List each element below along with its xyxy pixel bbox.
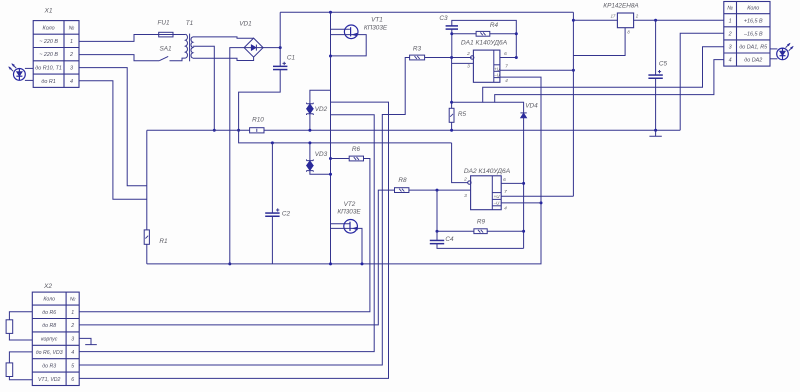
wire X1 pin 1 to FU1: [79, 35, 159, 42]
svg-text:VT1, VD2: VT1, VD2: [38, 377, 61, 383]
svg-text:2: 2: [466, 51, 470, 57]
wire mid line down to DA2 pin 2: [452, 143, 468, 183]
svg-text:№: №: [70, 297, 76, 303]
resistor R6: [349, 156, 363, 161]
svg-text:C3: C3: [439, 15, 448, 22]
wire VT1 gate: [331, 28, 350, 30]
wire SA1 to T1 primary bottom: [170, 58, 186, 61]
wire C1 bottom to minus line: [239, 70, 281, 131]
connector X2 table: [32, 292, 79, 385]
capacitor C5: [648, 74, 662, 76]
junction: [654, 19, 657, 22]
svg-text:+16,5 В: +16,5 В: [744, 18, 763, 24]
wire HL2 to connector pin 4: [770, 58, 777, 60]
wire VD4 to DA2 output: [523, 118, 525, 249]
junction: [329, 262, 332, 265]
wire R4 left lead: [452, 33, 476, 35]
wire branch to VD2: [310, 90, 331, 104]
wire FU1 to T1 primary top: [173, 34, 185, 36]
svg-text:КП303Е: КП303Е: [337, 209, 361, 216]
voltage regulator body: [617, 13, 633, 28]
wire +V top rail: [280, 11, 573, 13]
svg-text:7: 7: [505, 64, 508, 70]
svg-text:R3: R3: [413, 46, 422, 53]
junction: [271, 141, 274, 144]
svg-text:~ 220 В: ~ 220 В: [39, 39, 58, 45]
svg-text:4: 4: [70, 79, 73, 85]
junction: [436, 189, 439, 192]
wire VT2 gate: [331, 223, 350, 225]
svg-text:X1: X1: [43, 8, 52, 15]
svg-text:5: 5: [71, 363, 74, 369]
op-amp DA1 body: [473, 50, 500, 82]
junction: [522, 230, 525, 233]
fuse FU1: [159, 32, 173, 37]
svg-text:C2: C2: [282, 211, 291, 218]
connector table (right): [724, 2, 770, 67]
LED HL2 indicator (right): [777, 48, 789, 60]
wire R6 right lead down to X2 pin 1: [79, 159, 370, 312]
wire top rail down VT1 column: [330, 12, 332, 56]
wire DA2 output pin 6: [501, 182, 523, 184]
svg-text:VD1: VD1: [239, 21, 252, 28]
wire rail corner down to R1: [146, 130, 148, 230]
svg-text:Коло: Коло: [43, 25, 55, 31]
svg-text:Т1: Т1: [186, 20, 194, 27]
zener VD2: [307, 103, 314, 104]
wire T1 secondary mid tap down: [193, 46, 214, 130]
wire C1 minus down to mid line: [239, 130, 452, 143]
junction: [228, 262, 231, 265]
svg-text:2: 2: [463, 177, 467, 183]
wire X1 pin 4 down to R1 node: [79, 81, 147, 200]
wire branch VT1,VD2 net to X2 pin 6: [79, 102, 388, 378]
svg-text:3: 3: [71, 337, 74, 343]
wire +V column down: [572, 12, 574, 196]
wire DA1 output pin 6: [500, 57, 516, 59]
svg-text:корпус: корпус: [41, 337, 58, 343]
svg-text:R5: R5: [458, 111, 467, 118]
junction: [361, 262, 364, 265]
svg-text:№: №: [727, 6, 733, 12]
transistor VT1: [344, 25, 358, 39]
svg-text:X2: X2: [43, 283, 52, 290]
svg-text:–U: –U: [493, 201, 500, 206]
wire DA1 pin 3 to R5 column: [452, 62, 474, 64]
junction: [450, 101, 453, 104]
wire HL1 cathode to X1 pin 4: [25, 79, 33, 81]
svg-text:3: 3: [729, 44, 732, 50]
switch SA1 blade: [159, 56, 168, 60]
svg-text:VD2: VD2: [315, 106, 328, 113]
svg-text:до DA2: до DA2: [744, 58, 762, 64]
wire minus rail left segment: [147, 129, 250, 131]
svg-text:+U: +U: [494, 194, 501, 199]
transistor VT2: [344, 220, 358, 234]
wire regulator common pin down and left: [573, 28, 625, 56]
wire T1 secondary bottom to VD1: [193, 57, 254, 60]
wire X1 pin 2 to SA1: [79, 55, 159, 61]
transformer T1 secondary winding: [191, 37, 193, 58]
svg-text:SA1: SA1: [159, 46, 172, 53]
svg-text:3: 3: [467, 64, 470, 70]
wire X1 pin 3 down to R1 node: [79, 68, 147, 186]
wire C3 bottom to R4 node: [451, 29, 453, 58]
wire C4 bottom loop to output node: [437, 244, 524, 249]
transformer T1 primary winding: [185, 34, 187, 58]
wire minus rail right segment: [264, 129, 680, 131]
wire DA2 pin 7 to +V column: [501, 195, 573, 197]
wire C3 top loop: [452, 20, 517, 57]
wire R1 bottom to common rail: [146, 244, 148, 264]
junction: [522, 182, 525, 185]
junction: [436, 230, 439, 233]
shield bracket X2 pins 4-6: [9, 352, 32, 380]
junction: [308, 129, 311, 132]
junction: [237, 129, 240, 132]
svg-text:DA1 К140УД6А: DA1 К140УД6А: [461, 40, 508, 47]
wire C1 node down to C1: [279, 48, 281, 67]
svg-text:№: №: [69, 25, 75, 31]
wire R6 left lead: [331, 158, 350, 160]
svg-text:R6: R6: [352, 146, 361, 153]
svg-text:R4: R4: [490, 22, 499, 29]
resistor R10: [250, 128, 264, 133]
svg-text:4: 4: [504, 206, 507, 212]
wire regulator output +16,5V to connector pin 1: [634, 19, 724, 21]
wire C2 bottom to common rail: [271, 216, 273, 264]
wire VT1 source column down: [330, 56, 332, 264]
svg-text:КР142ЕН8А: КР142ЕН8А: [603, 3, 638, 10]
wire VT1 drain-source lead with arrow: [331, 35, 367, 56]
wire R9 right lead: [487, 230, 523, 232]
svg-text:3: 3: [464, 193, 467, 199]
svg-text:2: 2: [635, 14, 639, 19]
svg-text:VD3: VD3: [315, 151, 328, 158]
svg-text:4: 4: [505, 78, 508, 84]
wire VT2 lead with arrow down to rail: [331, 228, 363, 264]
wire HL1 anode to X1 pin 3: [25, 67, 33, 69]
wire VD3 bottom to VT1 column: [310, 171, 331, 175]
zener VD3: [307, 159, 314, 160]
wire C1 node up to +V top rail: [279, 12, 281, 47]
svg-text:VT1: VT1: [371, 17, 383, 24]
wire R5 column: [451, 58, 453, 109]
wire DA2 pin 4 to -U column: [501, 202, 541, 204]
junction: [450, 56, 453, 59]
svg-text:2: 2: [69, 52, 73, 58]
svg-text:R1: R1: [159, 238, 168, 245]
wire C4 column from R8 line: [436, 190, 438, 241]
resistor R4: [476, 31, 490, 36]
resistor R3: [410, 55, 425, 60]
svg-text:до R1: до R1: [41, 79, 55, 85]
wire VD2 bottom to rail: [309, 114, 311, 131]
bridge rectifier VD1: [244, 38, 263, 57]
junction: [279, 46, 282, 49]
resistor R8: [395, 188, 409, 193]
wire HL2 to connector pin 3: [770, 48, 777, 50]
svg-text:до R3: до R3: [42, 363, 56, 369]
op-amp DA2 body: [471, 176, 502, 210]
capacitor C5 polarity +: [658, 70, 661, 73]
resistor R5: [449, 108, 454, 122]
wire DA1 pin 7 to +V column: [500, 69, 574, 71]
svg-text:2: 2: [70, 323, 74, 329]
svg-text:6: 6: [71, 377, 74, 383]
svg-text:6: 6: [503, 177, 506, 183]
capacitor C1 polarity +: [283, 62, 286, 65]
svg-text:VT2: VT2: [344, 201, 356, 208]
svg-text:до R8: до R8: [42, 323, 56, 329]
svg-text:2: 2: [728, 31, 732, 37]
capacitor C3: [446, 25, 458, 27]
wire branch VD3 net to X2 pin 4: [79, 115, 374, 352]
svg-text:17: 17: [611, 14, 616, 19]
wire C5 bottom to rail: [655, 78, 657, 130]
junction: [654, 129, 657, 132]
wire R3 left lead down to X2 pin 5: [79, 58, 409, 366]
diode VD4: [520, 112, 526, 114]
svg-text:–16,5 В: –16,5 В: [743, 31, 763, 37]
svg-text:4: 4: [71, 350, 74, 356]
junction: [572, 69, 575, 72]
svg-text:C5: C5: [659, 61, 668, 68]
svg-text:C4: C4: [445, 236, 454, 243]
svg-text:до R6: до R6: [42, 310, 56, 316]
junction: [329, 11, 332, 14]
wire R5 node jog to rail B (to pin 4 of right connector): [483, 60, 724, 103]
svg-text:7: 7: [504, 189, 507, 195]
wire +V to regulator input: [573, 19, 617, 21]
svg-text:до R6, VD3: до R6, VD3: [36, 350, 63, 356]
junction: [329, 157, 332, 160]
wire DA1 pin 4 to -U column: [500, 77, 541, 203]
wire VD3 top from mid line: [308, 141, 311, 144]
wire R5 node to rail A (to pin 3 of right connector): [452, 47, 724, 103]
junction: [213, 129, 216, 132]
svg-text:DA2 К140УД6А: DA2 К140УД6А: [464, 168, 511, 175]
capacitor C4: [430, 239, 444, 241]
LED HL1 indicator: [14, 69, 26, 81]
op-amp DA2 pin 2 bubble: [468, 181, 471, 184]
wire R5 node to VD4: [495, 102, 524, 113]
capacitor C2: [265, 212, 279, 214]
wire R5 bottom to rail: [451, 122, 453, 130]
svg-text:+U: +U: [494, 66, 501, 71]
svg-text:–U: –U: [493, 73, 500, 78]
resistor R1: [144, 230, 149, 244]
svg-text:C1: C1: [287, 55, 296, 62]
svg-text:8: 8: [627, 30, 630, 35]
svg-text:1: 1: [70, 39, 73, 45]
wire rail to -16,5V connector pin 2: [680, 33, 724, 130]
junction: [450, 32, 453, 35]
svg-text:4: 4: [729, 58, 732, 64]
transformer T1 core: [189, 34, 191, 62]
capacitor C2 polarity +: [276, 208, 279, 211]
svg-text:Коло: Коло: [43, 297, 55, 303]
junction: [450, 129, 453, 132]
junction: [572, 19, 575, 22]
wire VD1 plus (right corner) to C1 node: [263, 47, 280, 49]
svg-text:1: 1: [71, 310, 74, 316]
svg-text:до R10, Т1: до R10, Т1: [35, 65, 62, 71]
svg-text:КП303Е: КП303Е: [364, 25, 388, 32]
svg-text:3: 3: [70, 65, 73, 71]
shield bracket X2 pins 1-3: [9, 312, 32, 340]
wire R4 right lead: [490, 33, 517, 35]
wire common bottom rail: [147, 203, 541, 264]
svg-text:R9: R9: [477, 219, 486, 226]
svg-text:FU1: FU1: [157, 20, 170, 27]
wire VD1 minus (left corner) down to common rail: [230, 48, 244, 264]
resistor R9: [474, 229, 487, 234]
op-amp DA1 pin 2 bubble: [471, 56, 474, 59]
svg-text:R8: R8: [398, 177, 407, 184]
wire R8 to DA2 pin 3: [409, 189, 471, 191]
junction: [329, 173, 332, 176]
junction: [515, 56, 518, 59]
connector X1 table: [33, 21, 79, 88]
wire T1 secondary top to VD1: [193, 37, 254, 38]
wire R9 left lead: [437, 230, 474, 232]
capacitor C1: [273, 65, 287, 67]
wire C2 top from mid line: [271, 143, 273, 213]
junction: [515, 32, 518, 35]
svg-text:Коло: Коло: [747, 6, 759, 12]
junction: [540, 201, 543, 204]
svg-text:~ 220 В: ~ 220 В: [39, 52, 58, 58]
svg-text:6: 6: [504, 51, 507, 57]
svg-text:до DA1, R5: до DA1, R5: [739, 44, 768, 50]
wire R8 left lead down to X2 pin 2: [79, 190, 394, 325]
wire R3 to DA1 pin 2: [425, 57, 472, 59]
svg-text:R10: R10: [252, 117, 264, 124]
chassis symbol at X2 pin 3: [79, 338, 97, 344]
svg-text:1: 1: [729, 18, 732, 24]
svg-text:VD4: VD4: [525, 103, 538, 110]
wire C5 top column: [655, 20, 657, 75]
junction: [329, 55, 332, 58]
chassis ground symbol: [649, 130, 661, 136]
